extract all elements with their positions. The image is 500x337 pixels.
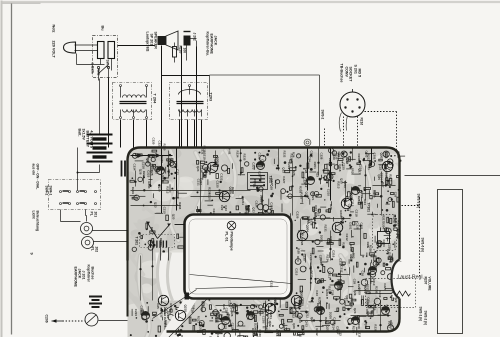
svg-text:R239: R239 — [215, 316, 219, 323]
svg-text:R211: R211 — [365, 284, 369, 291]
svg-text:C217: C217 — [282, 323, 286, 331]
svg-text:Q28: Q28 — [138, 169, 142, 175]
svg-text:Q22: Q22 — [251, 207, 255, 213]
svg-text:TP 202: TP 202 — [397, 229, 401, 240]
svg-text:C220: C220 — [152, 138, 156, 145]
svg-text:C226: C226 — [262, 316, 266, 324]
main vertical wires from top section down to board — [108, 78, 110, 148]
svg-text:9: 9 — [30, 253, 34, 255]
transformer T202 — [248, 173, 268, 190]
svg-text:C201: C201 — [373, 153, 377, 160]
volume control R207 dashed box — [366, 279, 416, 308]
svg-text:TP201: TP201 — [367, 203, 371, 213]
svg-text:Q26: Q26 — [292, 323, 296, 329]
speaker SP201 — [158, 36, 167, 45]
svg-text:C227: C227 — [310, 151, 314, 158]
svg-text:TB-Buchse: TB-Buchse — [340, 64, 344, 83]
svg-text:3x1,5V: 3x1,5V — [82, 129, 86, 141]
svg-text:aus ein: aus ein — [32, 164, 36, 176]
svg-text:C216: C216 — [142, 162, 146, 170]
svg-text:C220: C220 — [298, 316, 302, 324]
svg-text:PL: PL — [91, 247, 95, 251]
svg-text:R235: R235 — [243, 154, 247, 161]
svg-text:220 VOLT: 220 VOLT — [52, 41, 56, 59]
test point M201 TP202 — [373, 215, 397, 251]
svg-text:C219: C219 — [140, 306, 144, 313]
svg-text:T 204: T 204 — [153, 94, 157, 105]
svg-text:SPEAKER: SPEAKER — [154, 32, 158, 50]
connector Bu — [93, 36, 118, 78]
battery Batt 3x1.5V — [87, 134, 113, 136]
svg-text:R238: R238 — [374, 286, 378, 294]
svg-text:100: 100 — [183, 48, 187, 54]
svg-text:C28: C28 — [330, 290, 334, 296]
svg-text:SW4-2: SW4-2 — [45, 186, 49, 196]
svg-text:T202: T202 — [269, 176, 273, 184]
svg-text:4,5 VOLTS: 4,5 VOLTS — [90, 131, 94, 149]
svg-text:R233: R233 — [310, 271, 314, 278]
svg-text:Q206: Q206 — [216, 157, 220, 165]
svg-text:C227: C227 — [199, 178, 203, 186]
svg-text:R20: R20 — [342, 242, 346, 248]
svg-text:C226: C226 — [167, 169, 171, 177]
svg-text:C217: C217 — [340, 266, 344, 273]
svg-text:Q204: Q204 — [306, 225, 310, 233]
svg-text:R220: R220 — [179, 46, 183, 54]
pilot lamp PL01 symbol — [227, 221, 236, 230]
svg-text:Beleuchtung: Beleuchtung — [36, 211, 40, 232]
svg-text:C45: C45 — [265, 326, 269, 332]
svg-text:C206: C206 — [45, 315, 49, 323]
svg-text:D208: D208 — [320, 235, 324, 243]
chassis outline — [210, 74, 320, 76]
svg-text:R232: R232 — [345, 157, 349, 165]
dotted wires from socket — [343, 117, 345, 148]
svg-text:R234: R234 — [236, 151, 240, 158]
page edge top — [1, 1, 500, 3]
svg-text:R231: R231 — [324, 225, 328, 233]
svg-text:Q23: Q23 — [282, 167, 286, 173]
dotted link to volume switch — [402, 205, 420, 207]
transistors — [207, 162, 217, 172]
svg-text:D208: D208 — [357, 154, 361, 162]
wire bus segments inside board — [131, 190, 251, 192]
svg-text:C22: C22 — [220, 205, 224, 211]
svg-text:D201: D201 — [313, 162, 317, 170]
svg-text:C224: C224 — [255, 201, 259, 208]
svg-text:C23: C23 — [315, 290, 319, 296]
prominent copper trace swooshes — [170, 151, 179, 241]
svg-text:Q203: Q203 — [341, 217, 345, 225]
svg-text:BATTERY: BATTERY — [86, 131, 90, 148]
svg-text:R235: R235 — [160, 311, 164, 318]
svg-text:Q23: Q23 — [153, 202, 157, 208]
svg-text:SW2-2 (k): SW2-2 (k) — [424, 311, 428, 326]
svg-text:R229: R229 — [290, 154, 294, 161]
svg-text:C29: C29 — [353, 279, 357, 285]
svg-text:LP202: LP202 — [300, 191, 304, 200]
svg-text:R231: R231 — [325, 289, 329, 297]
svg-text:R235: R235 — [349, 244, 353, 252]
svg-text:JACK: JACK — [214, 36, 218, 46]
svg-text:a. Batt.: a. Batt. — [91, 63, 95, 74]
svg-text:C203: C203 — [365, 151, 369, 158]
svg-text:C23: C23 — [224, 205, 228, 211]
svg-text:C223: C223 — [252, 162, 256, 170]
svg-text:SW2-1 (k): SW2-1 (k) — [419, 307, 423, 322]
svg-text:D209: D209 — [358, 288, 362, 296]
svg-text:C212: C212 — [270, 281, 274, 288]
svg-text:C215: C215 — [294, 268, 298, 276]
svg-text:R28: R28 — [357, 196, 361, 202]
svg-text:C216: C216 — [309, 253, 313, 261]
svg-text:R26: R26 — [222, 304, 226, 310]
svg-text:SW1-3 (k): SW1-3 (k) — [417, 194, 421, 209]
svg-text:C221: C221 — [360, 223, 364, 230]
volume slider bracket — [438, 190, 463, 334]
svg-text:Kopfhörer-Bu.: Kopfhörer-Bu. — [206, 32, 210, 56]
svg-text:C208: C208 — [370, 311, 374, 318]
svg-text:R232: R232 — [283, 151, 287, 158]
svg-text:EARPHONE: EARPHONE — [210, 34, 214, 55]
svg-text:R238: R238 — [390, 256, 394, 263]
svg-text:C225: C225 — [335, 153, 339, 160]
svg-text:Q27: Q27 — [389, 320, 393, 326]
svg-text:PL 01: PL 01 — [225, 232, 229, 242]
svg-text:201: 201 — [94, 212, 98, 218]
svg-text:Q27: Q27 — [145, 158, 149, 164]
svg-text:C226: C226 — [320, 153, 324, 160]
DIN socket S201 TB-Buchse — [340, 92, 365, 117]
svg-text:JACK: JACK — [78, 269, 82, 279]
svg-text:C224: C224 — [134, 309, 138, 317]
svg-text:R24: R24 — [313, 212, 317, 218]
svg-text:Q205: Q205 — [229, 187, 233, 195]
svg-text:R212: R212 — [142, 171, 146, 179]
svg-text:C27: C27 — [318, 255, 322, 261]
svg-text:C22: C22 — [378, 165, 382, 171]
page edge left line — [11, 4, 13, 335]
svg-text:C229: C229 — [356, 222, 360, 230]
earphone jack J202 — [184, 36, 191, 46]
svg-text:C226: C226 — [296, 211, 300, 219]
marker 1 — [185, 293, 190, 300]
svg-text:C227: C227 — [383, 283, 387, 291]
svg-text:Q209: Q209 — [274, 298, 278, 306]
svg-text:C228: C228 — [300, 238, 304, 246]
svg-text:EARPHONE: EARPHONE — [74, 267, 78, 288]
svg-text:C210: C210 — [327, 189, 331, 197]
mains plug Netz 220V — [64, 42, 76, 53]
svg-text:SW 5: SW 5 — [106, 60, 110, 68]
svg-text:Q23: Q23 — [353, 308, 357, 314]
svg-text:D200: D200 — [343, 181, 347, 189]
svg-text:R29: R29 — [329, 204, 333, 210]
diode row under top edge — [131, 155, 173, 157]
svg-text:SW3-2: SW3-2 — [321, 110, 325, 120]
earphone jack J201 — [89, 296, 102, 298]
svg-text:M201: M201 — [393, 215, 397, 223]
svg-text:Netz: Netz — [97, 69, 101, 76]
svg-text:SOCKET: SOCKET — [349, 67, 353, 83]
svg-text:R239: R239 — [160, 156, 164, 164]
svg-text:R26: R26 — [351, 170, 355, 176]
svg-text:Pilotlampe: Pilotlampe — [230, 232, 234, 251]
svg-text:R228: R228 — [310, 219, 314, 226]
svg-text:C223: C223 — [147, 170, 151, 178]
transformer T204 — [113, 83, 152, 120]
svg-text:R234: R234 — [325, 255, 329, 263]
dark transistor blobs — [317, 307, 325, 311]
svg-text:R211: R211 — [241, 198, 245, 205]
svg-text:Licht: Licht — [32, 211, 36, 220]
svg-text:Lautspr. 8Ω: Lautspr. 8Ω — [146, 32, 150, 52]
svg-text:TH-01: TH-01 — [228, 147, 232, 155]
svg-text:C227: C227 — [282, 176, 286, 184]
svg-text:C225: C225 — [342, 163, 346, 171]
svg-text:Q210: Q210 — [184, 305, 188, 313]
svg-text:R240: R240 — [350, 301, 354, 308]
svg-text:C216: C216 — [332, 250, 336, 258]
svg-text:MD 5: MD 5 — [358, 69, 362, 78]
svg-text:C210: C210 — [250, 311, 254, 318]
svg-text:R24: R24 — [363, 199, 367, 205]
wires inside board — [161, 148, 163, 214]
svg-text:C225: C225 — [216, 181, 220, 189]
svg-text:R230: R230 — [163, 144, 167, 151]
svg-text:T 201: T 201 — [135, 237, 139, 246]
wires crossing lamp box — [190, 275, 292, 284]
svg-text:SW4-1: SW4-1 — [49, 186, 53, 196]
switch SW5 — [97, 66, 99, 68]
svg-text:C213: C213 — [359, 164, 363, 172]
svg-text:Bu: Bu — [101, 26, 105, 32]
svg-text:C218: C218 — [355, 210, 359, 218]
svg-text:R236: R236 — [178, 202, 182, 210]
svg-text:Laust-Regl.: Laust-Regl. — [398, 275, 425, 281]
svg-text:S 201: S 201 — [354, 65, 358, 74]
svg-text:C219: C219 — [287, 162, 291, 170]
junction dots — [218, 189, 220, 191]
svg-text:SP 201: SP 201 — [150, 34, 154, 46]
svg-text:CONV: CONV — [345, 67, 349, 78]
wire to right edge — [405, 175, 500, 177]
svg-text:Q 03: Q 03 — [305, 321, 309, 328]
dense component clusters on board — [130, 148, 406, 337]
svg-text:C230: C230 — [258, 153, 262, 160]
svg-text:C218: C218 — [338, 164, 342, 172]
svg-text:Q201: Q201 — [385, 152, 389, 159]
svg-text:Q201: Q201 — [380, 153, 384, 161]
svg-text:R213: R213 — [337, 181, 341, 189]
svg-text:Q27: Q27 — [345, 295, 349, 301]
svg-text:SW1-6 (k): SW1-6 (k) — [421, 238, 425, 253]
svg-text:R234: R234 — [199, 165, 203, 173]
svg-text:R236: R236 — [369, 245, 373, 253]
capacitor bars near left edge — [121, 161, 123, 177]
svg-text:R20: R20 — [296, 256, 300, 262]
switch SW4 dashed box — [49, 180, 101, 210]
svg-text:J 201: J 201 — [82, 271, 86, 280]
pcb copper traces (light gray) — [120, 131, 426, 337]
svg-text:R22: R22 — [366, 311, 370, 317]
svg-text:C234: C234 — [133, 164, 137, 171]
svg-text:Kopfhörer: Kopfhörer — [87, 265, 91, 283]
svg-text:R216: R216 — [360, 118, 364, 126]
svg-text:Netz: Netz — [52, 25, 56, 33]
svg-text:C26: C26 — [361, 271, 365, 277]
transformer T201 — [140, 235, 175, 248]
svg-text:Q208: Q208 — [300, 291, 304, 299]
svg-text:R212: R212 — [166, 186, 170, 194]
svg-text:D203: D203 — [260, 195, 264, 203]
svg-text:R218: R218 — [275, 329, 279, 337]
svg-text:C27: C27 — [266, 314, 270, 320]
svg-text:R28: R28 — [296, 248, 300, 254]
right notch for volume control — [393, 262, 407, 298]
transformer T203 — [170, 83, 208, 120]
svg-text:D205: D205 — [329, 312, 333, 320]
dial lamp box PL01 — [185, 215, 292, 299]
PCB outline — [128, 148, 400, 261]
svg-text:Batt.: Batt. — [78, 129, 82, 137]
wire speaker top to chassis — [162, 75, 210, 77]
svg-text:J 202: J 202 — [193, 33, 197, 41]
potentiometer zigzag — [392, 291, 411, 296]
svg-text:C224: C224 — [166, 311, 170, 319]
svg-text:202: 202 — [95, 247, 99, 253]
pilot lamps PL201 PL202 — [81, 223, 93, 235]
svg-text:PL: PL — [90, 212, 94, 216]
svg-text:C215: C215 — [163, 207, 167, 215]
screw hole — [304, 139, 311, 146]
svg-text:T203: T203 — [209, 93, 213, 102]
traces over wedge — [157, 253, 162, 299]
svg-text:R210: R210 — [372, 278, 376, 286]
resistor R220 — [173, 47, 177, 58]
svg-text:R207: R207 — [424, 277, 428, 285]
svg-text:D201: D201 — [348, 222, 352, 230]
svg-text:C212: C212 — [345, 234, 349, 242]
svg-text:OFF - ON - DIAL: OFF - ON - DIAL — [36, 164, 40, 190]
white wedge lower-left of board — [156, 253, 185, 301]
svg-text:R231: R231 — [201, 148, 205, 155]
svg-text:Q20: Q20 — [171, 214, 175, 220]
svg-text:Buchse: Buchse — [91, 267, 95, 280]
svg-text:Q29: Q29 — [270, 184, 274, 190]
svg-text:R245: R245 — [230, 306, 234, 313]
svg-text:C221: C221 — [158, 141, 162, 148]
svg-text:VOLUME: VOLUME — [428, 277, 432, 292]
svg-text:R213: R213 — [197, 316, 201, 324]
